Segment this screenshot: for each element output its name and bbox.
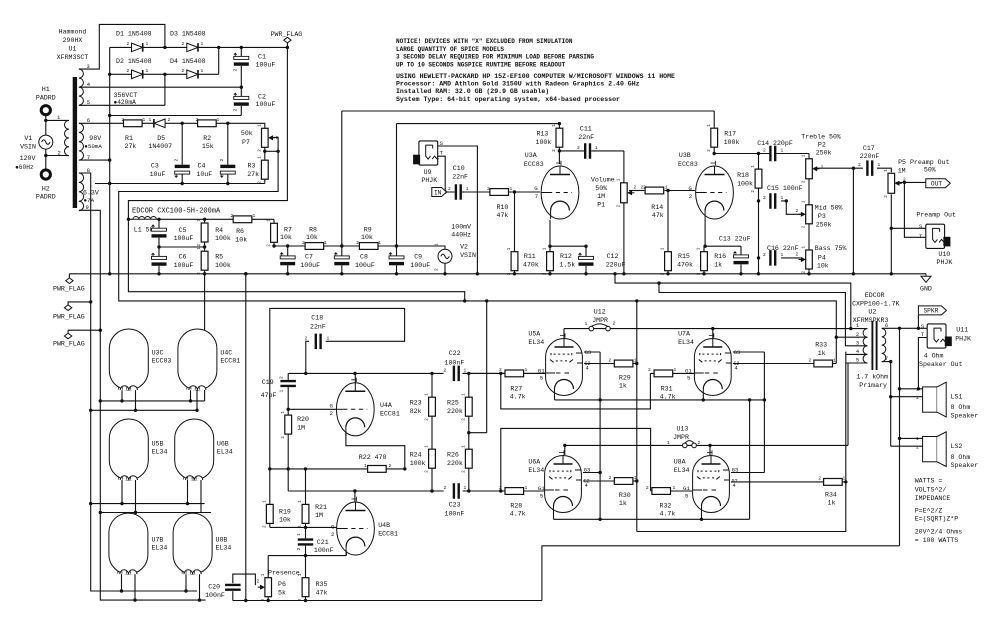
svg-text:EL34: EL34 [528,339,544,346]
svg-text:D3 1N5408: D3 1N5408 [170,31,206,38]
wire screens lower link to pin4 [637,352,846,532]
resistor R17 100k [711,128,718,147]
svg-text:1k: 1k [828,500,836,507]
svg-text:Treble 50%: Treble 50% [801,133,841,140]
svg-text:2: 2 [903,177,906,183]
svg-text:100mV: 100mV [451,223,471,230]
svg-text:4: 4 [735,366,738,372]
svg-text:S: S [921,323,925,330]
svg-text:1: 1 [299,573,303,576]
svg-text:R19: R19 [279,508,291,515]
heater drops U8B [185,574,187,591]
svg-text:NOTICE! DEVICES WITH "X" EXCLU: NOTICE! DEVICES WITH "X" EXCLUDED FROM S… [396,38,573,45]
wire R4 R5 column [204,219,206,273]
resistor R31 4.7k [654,370,673,377]
svg-text:100uF: 100uF [355,262,375,269]
svg-text:LARGE QUANTITY OF SPICE MODELS: LARGE QUANTITY OF SPICE MODELS [396,46,504,53]
wire U3A cathode [549,220,551,246]
svg-text:1: 1 [466,186,469,192]
svg-text:1: 1 [665,184,668,190]
svg-text:G: G [330,403,334,410]
wire tone pot column [808,154,810,274]
svg-text:PHJK: PHJK [937,259,953,266]
svg-text:100nF: 100nF [314,547,334,554]
wire C14 row [713,153,809,155]
wire U9 sleeve to ground [438,146,478,274]
svg-text:C5: C5 [179,227,187,234]
svg-text:R18: R18 [737,172,749,179]
wire U4A cathode path [346,433,405,469]
svg-text:SPKR: SPKR [923,308,938,315]
svg-text:2: 2 [462,470,466,473]
svg-text:1: 1 [364,463,367,469]
capacitor C10 22nF [455,184,462,200]
svg-text:R33: R33 [815,341,827,348]
capacitor C2 100uF [234,96,249,106]
potentiometer P7 50k [262,128,269,147]
svg-text:1.7 kOhm: 1.7 kOhm [856,374,888,381]
jumper U13 JMPR [683,443,688,448]
wire plates row lower U13 [565,444,848,446]
wire cathode row lower [554,518,750,520]
svg-text:EDCOR CXC100-5H-200mA: EDCOR CXC100-5H-200mA [132,208,221,216]
tube U4A ECC81 [336,383,374,436]
svg-text:220nF: 220nF [860,153,880,160]
PWR_FLAG 2 [64,305,71,311]
svg-text:2: 2 [487,186,490,192]
svg-text:PWR_FLAG: PWR_FLAG [53,313,85,320]
resistor R11 470k [511,252,518,271]
svg-text:1: 1 [378,240,381,246]
svg-text:5: 5 [540,492,544,499]
svg-text:R20: R20 [297,416,309,423]
svg-text:G3: G3 [584,467,591,474]
svg-text:H1: H1 [42,86,50,93]
transformer U1 Hammond 290HX [73,77,77,208]
wire P6 wiper C20 path [233,574,256,585]
junction dots power [163,46,166,49]
svg-text:C4: C4 [198,163,206,170]
svg-text:10k: 10k [817,262,829,269]
svg-text:20V^2/4 Ohms: 20V^2/4 Ohms [915,527,963,535]
wire U4A grid [288,408,340,410]
wire 98V common rail [95,183,265,185]
svg-text:JMPR: JMPR [592,317,608,324]
svg-text:R21: R21 [315,504,327,511]
heater drops U6B [187,480,189,504]
svg-text:G1: G1 [683,485,690,492]
svg-text:4.7k: 4.7k [510,511,526,518]
wire pin1 feed [615,274,851,329]
wire U3B cathode [704,219,706,246]
svg-text:1: 1 [916,436,919,442]
wire pin7 to common column [882,361,891,363]
svg-text:2: 2 [198,272,202,275]
svg-text:H2: H2 [42,185,50,192]
svg-text:2: 2 [299,598,303,601]
svg-text:PWR_FLAG: PWR_FLAG [53,341,85,348]
resistor R30 1k [614,478,633,485]
svg-text:2: 2 [698,272,702,275]
svg-text:VSIN: VSIN [20,143,36,150]
svg-text:220k: 220k [447,408,463,415]
capacitor C11 22nF [584,143,591,159]
svg-text:2: 2 [763,148,766,154]
svg-text:R10: R10 [497,204,509,211]
svg-text:UP TO 10 SECONDS NGSPICE RUNTI: UP TO 10 SECONDS NGSPICE RUNTIME BEFORE … [396,61,566,68]
wire R34 right [842,481,846,483]
jack U11 PHJK speaker out [927,324,946,348]
wire plate node to C22 row right [463,372,546,374]
capacitor C22 100nF [453,366,460,382]
wire R29 right [633,363,637,365]
svg-text:EDCOR: EDCOR [865,292,885,299]
PWR_FLAG top [284,37,291,43]
svg-text:V2: V2 [460,244,468,251]
svg-text:T: T [919,233,923,240]
svg-text:1: 1 [843,476,846,482]
svg-text:2: 2 [233,69,239,72]
svg-text:2: 2 [276,135,279,141]
svg-text:5k: 5k [278,589,286,596]
svg-text:10k: 10k [235,237,247,244]
wire pin6 to jack S [882,327,928,329]
capacitor C15 100nF [769,193,776,209]
svg-text:2: 2 [646,485,649,491]
svg-text:2: 2 [752,190,756,193]
capacitor C1 100uF [234,56,249,66]
svg-text:2: 2 [330,410,334,417]
wire U9 tip to input node [438,156,446,192]
capacitor C19 47pF [280,380,296,387]
wire U5A plate pin [563,329,565,338]
svg-text:220uF: 220uF [606,261,626,268]
svg-text:1: 1 [146,68,149,74]
svg-text:2: 2 [279,376,285,379]
svg-text:2: 2 [818,476,821,482]
svg-text:47k: 47k [316,589,328,596]
svg-text:R7: R7 [284,226,292,233]
svg-text:C12: C12 [607,253,619,260]
svg-text:2: 2 [609,357,612,363]
tube U3C ECC83 heater [109,329,148,390]
svg-text:R13: R13 [537,130,549,137]
wire G3 column left [599,352,601,519]
svg-text:1: 1 [781,195,784,201]
svg-text:98V: 98V [89,135,101,142]
resistor R27 4.7k [505,370,524,377]
wire pin3 feed [659,283,846,346]
wire U5A G3 stub [584,351,600,353]
svg-text:P1: P1 [597,202,605,209]
svg-text:D1 1N5408: D1 1N5408 [116,31,152,38]
svg-text:2: 2 [544,272,548,275]
wire divider mid to bias feed [469,432,487,434]
svg-text:100uF: 100uF [174,235,194,242]
tube U5B EL34 heater [109,419,148,480]
wire U5A cathode pin [554,395,556,400]
svg-text:1k: 1k [619,383,627,390]
wire U3A cathode rail [550,245,586,247]
wire treble node down to ground [852,168,854,274]
svg-text:2: 2 [282,436,286,439]
svg-text:2: 2 [885,195,889,198]
svg-text:Primary: Primary [859,382,887,389]
heater junction dots [99,399,102,402]
svg-text:R12: R12 [560,253,572,260]
svg-text:4.7k: 4.7k [510,394,526,401]
wire U8A G3 stub [731,472,764,474]
svg-text:2: 2 [331,531,335,538]
potentiometer P3 Mid 250k [806,205,813,224]
wire U6A plate pin [564,445,566,455]
svg-text:XFRM3SCT: XFRM3SCT [57,54,89,61]
wire C1 C2 column [240,47,242,115]
wire U4B plate pin [354,491,356,504]
resistor R16 1k [701,252,708,271]
capacitor C18 22nF [315,334,322,350]
svg-text:Installed RAM: 32.0 GB (29.9 G: Installed RAM: 32.0 GB (29.9 GB usable) [396,88,549,95]
wire C20 bottom [232,591,234,600]
svg-text:G3: G3 [734,349,741,356]
svg-text:2: 2 [499,367,502,373]
svg-text:R8: R8 [309,226,317,233]
svg-text:1: 1 [667,440,670,446]
wire pin8 heater line [79,173,197,591]
resistor R25 220k [465,397,472,416]
capacitor C13 22uF [734,255,749,265]
wire bias line long run to screens bus [119,151,837,363]
wire bridge row1 [110,46,288,48]
capacitor C8 100uF [334,256,349,266]
SPKR net flag [918,306,946,315]
svg-text:8 Ohm: 8 Ohm [951,454,971,461]
svg-text:5: 5 [540,375,544,382]
wire C17 to P5 [877,168,891,172]
svg-text:100uF: 100uF [174,262,194,269]
wire R17 column [713,111,715,154]
svg-text:C21: C21 [317,539,329,546]
svg-text:G1: G1 [538,367,545,374]
wire LS2 plus [900,437,923,439]
resistor R8 10k [305,243,324,250]
svg-text:USING HEWLETT-PACKARD HP 15Z-E: USING HEWLETT-PACKARD HP 15Z-EF100 COMPU… [396,73,675,80]
tube U7B EL34 heater [109,513,148,574]
svg-text:4: 4 [733,483,736,489]
svg-text:100uF: 100uF [256,62,276,69]
svg-text:4.7k: 4.7k [660,394,676,401]
svg-text:1: 1 [217,117,220,123]
svg-text:U3B: U3B [679,152,691,159]
OUT net flag [926,179,951,188]
wire U4B cathode [345,552,347,556]
svg-text:1: 1 [856,323,859,329]
svg-text:1: 1 [508,247,512,250]
svg-text:50%: 50% [595,185,607,192]
svg-text:290HX: 290HX [63,37,83,44]
wire C12 column [585,246,587,274]
svg-text:G3: G3 [732,467,739,474]
svg-text:VSIN: VSIN [460,252,476,259]
resistor R35 47k [302,578,309,597]
svg-text:R11: R11 [524,253,536,260]
svg-text:P5 Preamp Out: P5 Preamp Out [898,159,949,166]
svg-text:1: 1 [282,411,286,414]
svg-text:U7A: U7A [678,331,690,338]
svg-text:47k: 47k [652,212,664,219]
capacitor C4 10uF [220,165,235,175]
svg-text:1: 1 [803,246,807,249]
resistor R2 15k [198,120,217,127]
svg-text:2: 2 [258,149,262,152]
wire U7A G3 stub [733,351,765,353]
wire P2 wiper row to C17 [814,167,864,169]
ground symbol GND [921,274,931,283]
svg-text:100k: 100k [737,181,753,188]
svg-text:IN: IN [434,189,442,196]
wire pin3 route to bridge [79,24,165,69]
svg-text:P2: P2 [818,142,826,149]
svg-text:U2: U2 [868,309,876,316]
svg-text:1: 1 [781,148,784,154]
svg-text:250k: 250k [816,150,832,157]
svg-text:2: 2 [803,271,807,274]
svg-text:2: 2 [444,367,447,373]
svg-text:2: 2 [389,463,392,469]
svg-text:R28: R28 [510,503,522,510]
svg-text:2: 2 [426,470,430,473]
svg-text:6: 6 [87,117,90,124]
svg-text:Volume: Volume [591,177,615,184]
wire pin9 heater line [79,210,206,600]
resistor R34 1k [824,479,843,486]
svg-text:1: 1 [296,533,302,536]
svg-text:R29: R29 [619,375,631,382]
wire U4A plate pin [354,373,356,384]
wire B+ rail inner [397,123,560,125]
capacitor C17 220nF [866,160,873,176]
svg-text:2: 2 [305,335,308,341]
svg-text:L1 5H: L1 5H [134,227,154,234]
svg-text:ECC83: ECC83 [524,161,544,168]
heater drops U4C [190,390,192,401]
wire pin5 [79,104,165,106]
svg-text:2: 2 [182,68,185,74]
tube U3A ECC83 [541,166,579,219]
svg-text:ECC81: ECC81 [380,410,400,417]
svg-text:U4B: U4B [378,522,390,529]
svg-text:D4 1N5408: D4 1N5408 [170,58,206,65]
resistor R19 10k [266,504,273,523]
wire C7 column [287,246,289,274]
svg-text:PHJK: PHJK [421,177,437,184]
capacitor C3 10uF [175,165,190,175]
wire jack U11 tip down [918,338,927,389]
svg-text:EL34: EL34 [528,467,544,474]
svg-text:ECC83: ECC83 [152,358,172,365]
diode D5 1N4007 [154,119,165,128]
svg-text:C1: C1 [258,54,266,61]
svg-text:PWR_FLAG: PWR_FLAG [53,286,85,293]
wire pin6 bias row [79,123,265,128]
svg-text:2: 2 [196,117,199,123]
svg-text:1: 1 [201,68,204,74]
wire U3A plate to R13 [558,124,560,164]
svg-text:R25: R25 [447,399,459,406]
wire C16 to P4 wiper [781,257,801,259]
svg-text:1.5k: 1.5k [559,261,575,268]
svg-text:V1: V1 [24,135,32,142]
svg-text:250k: 250k [816,221,832,228]
svg-text:PADRD: PADRD [36,194,56,201]
svg-text:R34: R34 [825,491,837,498]
svg-text:2: 2 [856,332,859,338]
source V2 VSIN 100mV 440Hz [397,246,446,249]
wire R19 column [269,469,271,528]
wire C4 column [227,123,229,183]
resistor R32 4.7k [652,488,671,495]
svg-text:PADRD: PADRD [36,94,56,101]
svg-text:100k: 100k [215,235,231,242]
wire R32 to U8A grid [651,490,692,492]
svg-text:1: 1 [916,386,919,392]
wire C11 row [559,150,624,152]
capacitor C6 100uF [152,256,167,266]
connector H1 PADRD [41,106,50,115]
svg-text:1: 1 [510,186,513,192]
svg-text:3 SECOND DELAY REQUIRED FOR MI: 3 SECOND DELAY REQUIRED FOR MINIMUM LOAD… [396,54,594,61]
svg-text:E=(SQRT)Z*P: E=(SQRT)Z*P [915,515,959,522]
tube U3B ECC83 [696,166,734,219]
wire R31 to U7A grid [650,372,694,374]
wire R30 right [633,480,637,482]
svg-text:R23: R23 [410,399,422,406]
resistor R33 1k [814,360,833,367]
wire U7A cathode pin [702,395,704,400]
svg-text:C18: C18 [311,315,323,322]
svg-text:C6: C6 [179,254,187,261]
svg-text:2: 2 [302,240,305,246]
wire pin5 to row2 junction [164,74,166,105]
resistor R4 100k [201,223,208,242]
wire grid row right segment [463,490,546,492]
wire R16 column [703,246,705,274]
svg-text:2: 2 [127,68,130,74]
svg-text:C13 22uF: C13 22uF [719,235,751,242]
wire main ground rail [69,273,926,275]
svg-text:R15: R15 [678,253,690,260]
svg-text:U5B: U5B [152,440,164,447]
svg-text:Mid 50%: Mid 50% [815,205,843,212]
svg-text:6.3V: 6.3V [83,189,99,196]
resistor R18 100k [755,169,762,188]
svg-text:1: 1 [143,117,146,123]
tube U8B EL34 heater [173,513,212,574]
svg-text:U1: U1 [69,46,77,53]
connector H2 PADRD [41,170,50,179]
svg-text:100nF: 100nF [205,592,225,599]
svg-text:EL34: EL34 [216,545,232,552]
svg-text:G3: G3 [585,349,592,356]
wire U7A plate pin [712,329,714,338]
svg-text:EL34: EL34 [152,545,168,552]
speaker LS2 8 Ohm [923,437,938,462]
svg-text:= 100 WATTS: = 100 WATTS [915,537,959,544]
wire LS2 minus [891,445,923,447]
wire pin2 link [836,336,846,338]
capacitor C7 100uF [280,256,295,266]
svg-text:22nF: 22nF [310,323,326,330]
